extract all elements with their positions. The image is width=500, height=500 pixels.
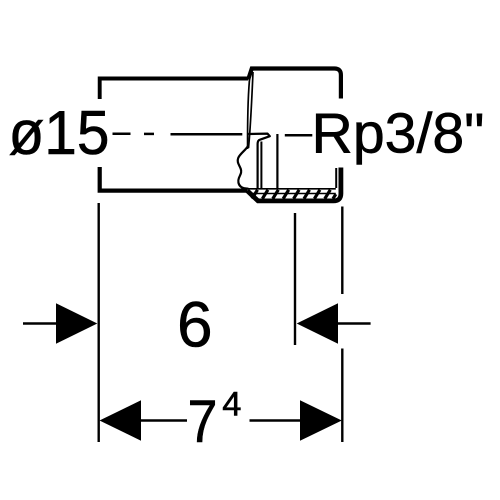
svg-text:Rp3/8": Rp3/8"	[312, 102, 485, 166]
svg-text:7: 7	[188, 388, 218, 455]
svg-text:6: 6	[177, 288, 213, 360]
svg-text:ø15: ø15	[9, 98, 110, 168]
svg-text:4: 4	[222, 385, 241, 423]
